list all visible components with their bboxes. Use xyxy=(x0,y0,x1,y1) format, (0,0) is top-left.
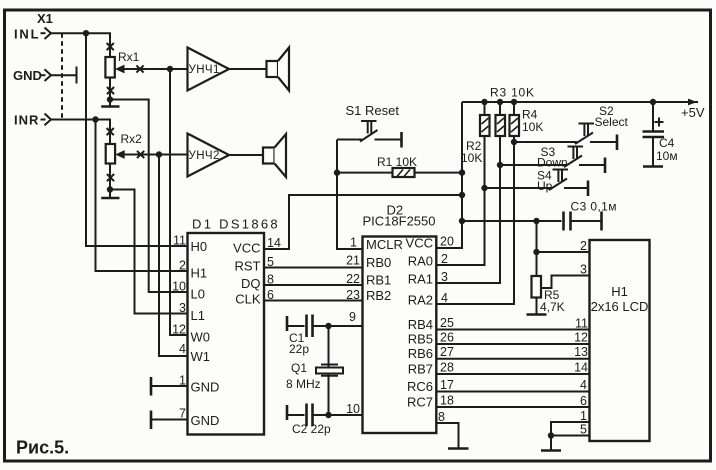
svg-text:MCLR: MCLR xyxy=(366,237,403,252)
svg-text:GND: GND xyxy=(13,68,42,83)
junction C3 row / R5 column xyxy=(533,218,539,224)
svg-text:20: 20 xyxy=(440,235,454,249)
wire INR to Rx2 top xyxy=(51,120,110,145)
svg-text:Рис.5.: Рис.5. xyxy=(16,438,69,458)
wiper arrow Rx2 xyxy=(115,150,125,159)
cut mark below Rx2 xyxy=(107,174,114,181)
wire Rx2 bottom to L1 xyxy=(110,190,188,314)
ground D2 pin8 xyxy=(448,447,469,450)
wire RB7 to LCD pin14 xyxy=(436,373,589,375)
svg-text:4: 4 xyxy=(580,378,587,392)
resistor Rx1 xyxy=(105,57,114,78)
resistor R2 xyxy=(480,102,490,136)
svg-text:10K: 10K xyxy=(522,120,543,134)
op-amp UNCH1 xyxy=(188,48,230,91)
svg-text:RC7: RC7 xyxy=(407,395,433,410)
svg-text:RA2: RA2 xyxy=(408,293,433,308)
svg-text:22: 22 xyxy=(346,272,360,286)
cut mark on Rx2 wiper wire xyxy=(137,151,144,158)
wire INL to Rx1 top xyxy=(51,33,110,57)
svg-text:13: 13 xyxy=(574,345,588,359)
wire RA1 to R3 column xyxy=(436,136,500,284)
LCD H1 body xyxy=(590,240,650,441)
junction S1/R1 xyxy=(334,169,340,175)
ground under Rx2 xyxy=(109,190,111,198)
svg-text:12: 12 xyxy=(172,323,186,337)
svg-text:12: 12 xyxy=(574,331,588,345)
wire to LCD pin2 xyxy=(537,251,590,253)
wire W1 riser xyxy=(159,155,188,357)
capacitor C2 xyxy=(287,404,363,427)
wire RA2 to R4 column xyxy=(436,136,514,305)
resistor R1 xyxy=(337,168,462,177)
junction R3 / S3 row xyxy=(497,162,503,168)
D1 GND1 wire xyxy=(151,385,188,387)
svg-text:3: 3 xyxy=(179,301,186,315)
op-amp UNCH2 xyxy=(188,134,230,177)
svg-text:VCC: VCC xyxy=(406,236,433,251)
svg-text:2x16 LCD: 2x16 LCD xyxy=(591,299,649,314)
wiper arrow Rx1 xyxy=(115,65,125,74)
svg-text:Rx2: Rx2 xyxy=(121,132,143,146)
svg-text:RB2: RB2 xyxy=(366,288,391,303)
svg-text:10: 10 xyxy=(172,280,186,294)
svg-text:11: 11 xyxy=(173,234,186,248)
ground under Rx1 xyxy=(109,100,111,107)
svg-text:D1 DS1868: D1 DS1868 xyxy=(192,217,280,232)
junction Rx2 wiper / W1 xyxy=(156,151,162,157)
wire D2 pin8 to ground xyxy=(436,423,458,448)
shield terminal bar xyxy=(76,67,78,84)
svg-text:S1 Reset: S1 Reset xyxy=(346,103,400,118)
svg-text:L1: L1 xyxy=(191,308,205,323)
svg-text:2: 2 xyxy=(441,252,448,266)
capacitor C2 terminal bar xyxy=(286,405,289,420)
svg-text:C3 0,1м: C3 0,1м xyxy=(571,200,617,214)
wire +5V column to C3 row xyxy=(462,220,537,222)
svg-text:25: 25 xyxy=(440,316,454,330)
svg-text:Up: Up xyxy=(537,179,553,193)
junction C1 / crystal xyxy=(325,323,331,329)
resistor R3 xyxy=(496,102,506,136)
D1 GND1 terminal bar xyxy=(150,377,153,396)
svg-text:Down: Down xyxy=(537,156,568,170)
wire RB5 to LCD pin12 xyxy=(436,343,589,345)
ground LCD xyxy=(541,449,561,452)
svg-text:RST: RST xyxy=(235,259,261,274)
IC D1 DS1868 body xyxy=(188,233,265,435)
D1 GND7 terminal bar xyxy=(150,411,153,430)
junction R4 / S2 row xyxy=(511,139,517,145)
wire DQ to RB1 xyxy=(264,284,363,286)
wire INR down to H1 xyxy=(96,120,188,272)
svg-text:X1: X1 xyxy=(37,11,53,26)
svg-text:RB0: RB0 xyxy=(366,255,391,270)
svg-text:Q1: Q1 xyxy=(291,361,307,375)
wire GND to shield bar xyxy=(51,74,77,76)
svg-text:11: 11 xyxy=(575,317,588,331)
IC D2 PIC18F2550 body xyxy=(363,237,437,434)
pushbutton S2 xyxy=(514,124,617,151)
svg-text:1: 1 xyxy=(580,409,587,423)
svg-text:17: 17 xyxy=(440,378,454,392)
svg-text:RB7: RB7 xyxy=(408,362,433,377)
svg-text:+5V: +5V xyxy=(681,105,705,120)
junction Rx1 wiper / W0 xyxy=(167,66,173,72)
svg-text:H0: H0 xyxy=(191,239,208,254)
svg-text:26: 26 xyxy=(440,331,454,345)
svg-text:4: 4 xyxy=(441,291,448,305)
wire RC7 to LCD pin6 xyxy=(436,406,589,408)
svg-text:10м: 10м xyxy=(656,149,678,163)
svg-text:RB4: RB4 xyxy=(408,317,433,332)
svg-text:8 MHz: 8 MHz xyxy=(286,377,321,391)
junction R2 / S4 row xyxy=(481,185,487,191)
capacitor C1 xyxy=(287,315,363,338)
junction rail / R3 xyxy=(497,99,503,105)
svg-text:C4: C4 xyxy=(659,136,675,150)
junction D1 VCC row / +5V column xyxy=(459,192,465,198)
connector pin INL xyxy=(45,28,52,40)
junction INR xyxy=(92,116,98,122)
wire INL down to H0 xyxy=(86,33,188,246)
junction INL xyxy=(83,30,89,36)
junction LCD pin2 row xyxy=(533,249,539,255)
wire Rx1 wiper to amp xyxy=(123,68,188,70)
svg-text:УНЧ1: УНЧ1 xyxy=(189,64,220,76)
resistor R5 xyxy=(532,276,542,298)
pushbutton S3 xyxy=(500,147,605,174)
svg-text:Rx1: Rx1 xyxy=(118,50,140,64)
capacitor C1 terminal bar xyxy=(286,316,289,331)
svg-text:7: 7 xyxy=(179,407,186,421)
wire CLK to RB2 xyxy=(264,300,363,302)
svg-text:INL: INL xyxy=(14,27,40,42)
capacitor C4 xyxy=(643,102,665,167)
wire RST to RB0 xyxy=(264,267,363,269)
svg-text:27: 27 xyxy=(440,345,454,359)
crystal Q1 xyxy=(316,365,343,376)
svg-text:9: 9 xyxy=(349,310,356,324)
svg-text:28: 28 xyxy=(440,361,454,375)
svg-text:RA0: RA0 xyxy=(408,254,433,269)
svg-text:18: 18 xyxy=(440,394,454,408)
ground R5 xyxy=(527,313,547,316)
wire amp2 output xyxy=(229,154,263,156)
svg-text:VCC: VCC xyxy=(233,241,260,256)
svg-text:W0: W0 xyxy=(191,330,211,345)
svg-text:R1 10K: R1 10K xyxy=(377,155,417,169)
connector pin GND xyxy=(45,69,52,81)
wire Rx2 bottom xyxy=(109,164,111,190)
wire RB6 to LCD pin13 xyxy=(436,358,589,360)
resistor R4 xyxy=(510,102,520,136)
svg-text:23: 23 xyxy=(346,288,360,302)
junction R1 / +5V column xyxy=(459,169,465,175)
svg-text:PIC18F2550: PIC18F2550 xyxy=(363,214,436,229)
svg-text:8: 8 xyxy=(438,410,445,424)
junction Rx1 bottom xyxy=(107,96,113,102)
svg-text:H1: H1 xyxy=(191,266,208,281)
svg-text:5: 5 xyxy=(580,423,587,437)
junction Rx2 bottom xyxy=(107,186,113,192)
svg-text:6: 6 xyxy=(580,394,587,408)
pushbutton S4 xyxy=(485,170,589,197)
junction C2 / crystal xyxy=(325,412,331,418)
speaker B2 xyxy=(263,134,286,177)
svg-text:RB1: RB1 xyxy=(366,273,391,288)
wire amp1 output xyxy=(229,68,267,70)
svg-text:3: 3 xyxy=(580,263,587,277)
svg-text:1: 1 xyxy=(350,236,357,250)
junction rail / R4 xyxy=(511,99,517,105)
svg-text:10: 10 xyxy=(346,402,360,416)
wire Rx1 bottom to L0 xyxy=(110,100,188,293)
junction rail / R2 xyxy=(481,99,487,105)
svg-text:R3 10K: R3 10K xyxy=(490,86,535,100)
C4 plus sign xyxy=(655,118,664,127)
svg-text:RA1: RA1 xyxy=(408,272,433,287)
wire LCD pin1 xyxy=(551,422,590,436)
cut mark below Rx1 xyxy=(107,87,114,94)
junction C3 row / +5V column xyxy=(459,218,465,224)
svg-text:CLK: CLK xyxy=(235,292,261,307)
D1 GND7 wire xyxy=(151,419,188,421)
svg-text:14: 14 xyxy=(574,361,588,375)
wire RC6 to LCD pin4 xyxy=(436,391,589,393)
svg-text:RB6: RB6 xyxy=(408,346,433,361)
wire D2 VCC to rail xyxy=(436,102,462,248)
svg-text:GND: GND xyxy=(191,413,220,428)
wire crystal riser xyxy=(328,326,330,415)
svg-text:C2 22p: C2 22p xyxy=(292,422,331,436)
svg-text:GND: GND xyxy=(191,380,220,395)
svg-text:H1: H1 xyxy=(611,284,628,299)
svg-text:INR: INR xyxy=(14,113,39,128)
svg-text:DQ: DQ xyxy=(241,276,261,291)
svg-text:RB5: RB5 xyxy=(408,332,433,347)
svg-text:14: 14 xyxy=(267,236,281,250)
svg-text:L0: L0 xyxy=(191,287,205,302)
svg-text:Select: Select xyxy=(595,115,629,129)
wire RA0 to R2 column xyxy=(436,136,484,266)
+5V arrowhead xyxy=(688,99,697,106)
pushbutton S1 xyxy=(337,121,402,148)
wire RB4 to LCD pin11 xyxy=(436,329,589,331)
cut mark on Rx1 wiper wire xyxy=(136,65,143,72)
cut mark above Rx1 xyxy=(107,43,114,50)
capacitor C3 xyxy=(537,212,602,231)
cut mark above Rx2 xyxy=(107,128,114,135)
wire Rx2 wiper to amp xyxy=(123,154,188,156)
wire W0 riser xyxy=(170,69,188,335)
wire S1 to MCLR xyxy=(337,140,363,250)
speaker B1 xyxy=(267,48,290,91)
+5V rail xyxy=(462,101,698,103)
svg-text:W1: W1 xyxy=(191,349,211,364)
junction rail / C4 xyxy=(650,99,656,105)
connector pin INR xyxy=(45,114,52,126)
wire D1 VCC to +5V column xyxy=(264,195,462,249)
svg-text:RC6: RC6 xyxy=(407,379,433,394)
svg-text:2: 2 xyxy=(580,239,587,253)
svg-text:3: 3 xyxy=(441,270,448,284)
svg-text:4,7K: 4,7K xyxy=(540,300,565,314)
wire LCD pin3 to R5 tap xyxy=(541,276,590,289)
svg-text:21: 21 xyxy=(346,254,360,268)
wire LCD pin5 xyxy=(551,435,590,437)
wire LCD ground xyxy=(550,436,552,451)
resistor Rx2 xyxy=(106,144,115,164)
svg-text:10K: 10K xyxy=(461,151,482,165)
svg-text:2: 2 xyxy=(179,259,186,273)
svg-text:22p: 22p xyxy=(289,342,309,356)
junction LCD pin5 / ground xyxy=(548,432,554,438)
wire R5 bottom xyxy=(536,298,538,315)
wire Rx1 bottom xyxy=(109,78,111,100)
wire R5 column down xyxy=(536,221,538,276)
svg-text:4: 4 xyxy=(179,342,186,356)
svg-text:УНЧ2: УНЧ2 xyxy=(189,150,220,162)
cable shield dashed line xyxy=(61,33,63,119)
